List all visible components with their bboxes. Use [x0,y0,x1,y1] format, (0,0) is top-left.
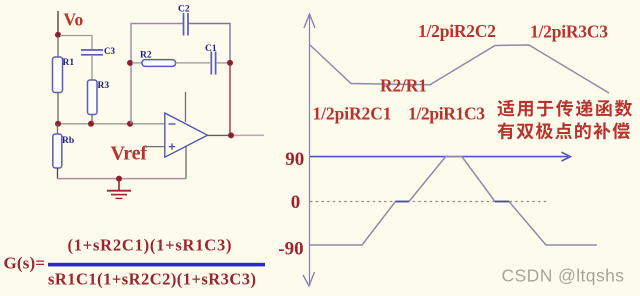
svg-text:R1: R1 [63,58,75,68]
wire R1 bottom stub [57,93,59,124]
fraction bar [48,263,265,267]
resistor R1 [53,57,63,93]
svg-text:CSDN @ltqshs: CSDN @ltqshs [502,266,625,286]
svg-text:C2: C2 [178,5,190,15]
wire R1 top stub [57,37,59,57]
capacitor C1 [210,52,212,75]
node N1 junction dot [55,32,61,38]
wire feedback top left [131,24,183,124]
svg-text:0: 0 [291,192,301,213]
node output dot [228,132,234,138]
label note line 2 (CJK) [497,122,514,139]
node dot B [88,121,94,127]
svg-text:-90: -90 [278,238,303,259]
wire node N1 to C3 top [60,36,92,50]
wire to R2 [132,62,142,64]
wire feedback top right [189,24,231,63]
phase curve [310,157,597,245]
svg-text:1/2piR1C3: 1/2piR1C3 [408,103,485,123]
node ground junction dot [116,176,122,182]
wire op-amp power pin [185,92,187,122]
svg-text:90: 90 [285,149,304,170]
phase 0 dashed line [310,201,549,203]
resistor Rb [53,134,62,168]
svg-text:C1: C1 [205,44,217,54]
wire bottom rail [58,178,187,180]
wire Rb bottom stub [57,168,59,179]
wire output tail [234,134,264,136]
svg-text:G(s)=: G(s)= [4,254,46,273]
svg-text:Vo: Vo [64,10,84,30]
svg-text:1/2piR3C3: 1/2piR3C3 [530,22,608,42]
wire Rb top stub [57,124,59,134]
svg-text:sR1C1(1+sR2C2)(1+sR3C3): sR1C1(1+sR2C2)(1+sR3C3) [48,270,256,289]
node dot C inverting input [127,121,133,127]
resistor R2 [142,60,176,67]
wire C3 to R3 [91,55,93,80]
resistor R3 [88,80,98,115]
svg-text:(1+sR2C1)(1+sR1C3): (1+sR2C1)(1+sR1C3) [68,236,232,255]
svg-text:R2: R2 [140,51,152,61]
wire R2 to C1 [176,62,211,64]
wire R3 bottom stub [91,115,93,124]
gain/phase shared axis [309,14,311,285]
node dot A [55,121,61,127]
wire Vo stub [57,11,59,35]
svg-text:Vref: Vref [111,142,148,164]
svg-text:R3: R3 [98,81,110,91]
label note line 1 (CJK) [497,100,514,117]
wire rail to op-amp V- pin [185,147,187,179]
capacitor C2 [183,13,185,36]
svg-text:C3: C3 [104,46,115,56]
wire non-inverting stub [145,146,165,148]
svg-text:1/2piR2C2: 1/2piR2C2 [418,21,496,41]
wire op-amp output [208,134,230,136]
gain curve [310,45,609,93]
wire summing node row [58,123,165,125]
svg-text:R2/R1: R2/R1 [380,76,427,96]
svg-text:1/2piR2C1: 1/2piR2C1 [313,103,392,123]
wire C1 to node [216,62,228,64]
svg-text:Rb: Rb [62,136,74,146]
wire right vertical to output [229,63,231,133]
capacitor C3 [81,49,103,51]
phase +90 line [310,156,568,158]
node R2C1 right dot [227,60,233,66]
op-amp U1 [165,113,208,157]
node R2 left dot [127,60,133,66]
ground [107,180,131,198]
phase curve 0-flats [396,201,410,203]
